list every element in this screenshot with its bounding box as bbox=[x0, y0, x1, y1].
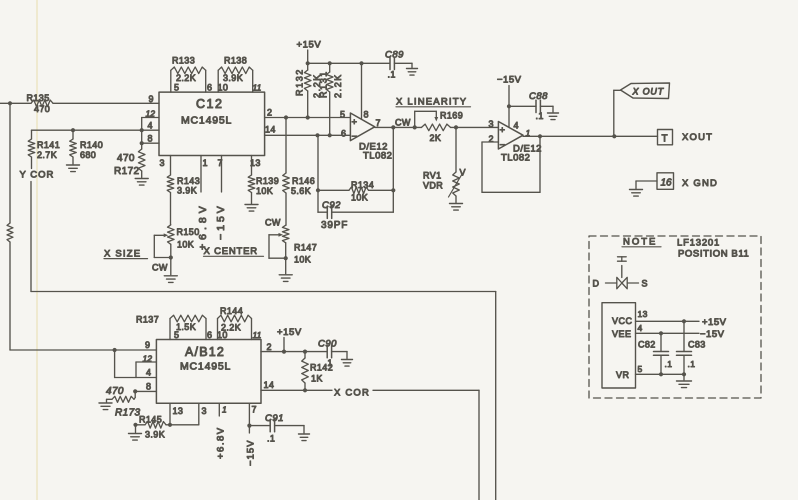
svg-text:2.2K: 2.2K bbox=[176, 73, 196, 83]
svg-text:R169: R169 bbox=[440, 111, 463, 121]
svg-text:X COR: X COR bbox=[334, 388, 370, 399]
svg-text:R173: R173 bbox=[115, 408, 141, 419]
svg-text:R140: R140 bbox=[80, 140, 103, 150]
svg-text:+15V: +15V bbox=[297, 40, 322, 51]
svg-text:5.6K: 5.6K bbox=[291, 186, 311, 196]
svg-text:1: 1 bbox=[203, 158, 208, 168]
svg-text:+: + bbox=[352, 117, 358, 128]
svg-text:+6.8V: +6.8V bbox=[216, 426, 227, 459]
svg-text:8: 8 bbox=[148, 134, 153, 144]
svg-text:Y COR: Y COR bbox=[20, 170, 55, 181]
svg-text:6: 6 bbox=[207, 83, 212, 93]
svg-text:−15V: −15V bbox=[215, 203, 227, 240]
svg-text:5: 5 bbox=[340, 109, 345, 119]
svg-text:5: 5 bbox=[638, 364, 643, 374]
svg-text:9: 9 bbox=[149, 94, 154, 104]
svg-text:X OUT: X OUT bbox=[632, 87, 665, 97]
svg-text:2.2K: 2.2K bbox=[333, 73, 343, 98]
svg-text:R134: R134 bbox=[351, 180, 374, 190]
svg-text:13: 13 bbox=[638, 309, 648, 319]
svg-text:13: 13 bbox=[173, 406, 184, 416]
svg-text:CW: CW bbox=[152, 263, 168, 273]
svg-text:14: 14 bbox=[265, 125, 276, 135]
svg-text:39PF: 39PF bbox=[321, 220, 348, 231]
svg-text:3.9K: 3.9K bbox=[223, 73, 243, 83]
svg-text:VDR: VDR bbox=[423, 181, 443, 191]
svg-text:X CENTER: X CENTER bbox=[204, 246, 258, 257]
svg-text:+6.8V: +6.8V bbox=[197, 202, 209, 250]
svg-text:3: 3 bbox=[489, 119, 494, 129]
svg-text:7: 7 bbox=[376, 118, 381, 128]
svg-text:470: 470 bbox=[34, 104, 50, 114]
svg-text:C92: C92 bbox=[322, 200, 341, 211]
svg-text:RV1: RV1 bbox=[423, 171, 442, 181]
svg-text:C12: C12 bbox=[196, 97, 223, 111]
svg-text:4: 4 bbox=[146, 368, 151, 378]
svg-text:+15V: +15V bbox=[702, 317, 727, 328]
svg-text:10K: 10K bbox=[177, 240, 194, 250]
svg-text:R172: R172 bbox=[114, 166, 140, 177]
svg-text:LF13201: LF13201 bbox=[677, 238, 720, 249]
svg-text:R147: R147 bbox=[294, 243, 317, 253]
svg-text:+15V: +15V bbox=[277, 327, 302, 338]
svg-text:−: − bbox=[500, 140, 506, 151]
svg-text:R141: R141 bbox=[37, 140, 60, 150]
svg-text:470: 470 bbox=[117, 153, 135, 164]
svg-text:6: 6 bbox=[341, 129, 346, 139]
svg-text:TL082: TL082 bbox=[363, 151, 392, 162]
svg-text:3.9K: 3.9K bbox=[145, 430, 165, 440]
svg-text:X GND: X GND bbox=[682, 178, 718, 189]
svg-text:3: 3 bbox=[202, 406, 207, 416]
svg-text:10K: 10K bbox=[351, 193, 368, 203]
svg-text:T: T bbox=[662, 134, 669, 145]
svg-text:C88: C88 bbox=[529, 91, 548, 102]
svg-text:.1: .1 bbox=[388, 70, 396, 80]
svg-text:VCC: VCC bbox=[612, 316, 633, 326]
svg-text:680: 680 bbox=[80, 150, 96, 160]
svg-text:R142: R142 bbox=[310, 363, 333, 373]
svg-text:16: 16 bbox=[661, 178, 673, 189]
svg-text:14: 14 bbox=[264, 380, 275, 390]
svg-text:470: 470 bbox=[106, 386, 124, 397]
svg-text:10K: 10K bbox=[294, 255, 311, 265]
svg-text:+: + bbox=[500, 125, 506, 136]
svg-text:R146: R146 bbox=[292, 176, 315, 186]
svg-text:R133: R133 bbox=[172, 56, 195, 66]
svg-text:MC1495L: MC1495L bbox=[180, 361, 231, 373]
svg-text:3: 3 bbox=[160, 158, 165, 168]
svg-text:MC1495L: MC1495L bbox=[181, 115, 232, 127]
svg-text:R144: R144 bbox=[220, 306, 243, 316]
svg-text:−15V: −15V bbox=[497, 75, 522, 86]
svg-text:R135: R135 bbox=[27, 93, 50, 103]
svg-text:11: 11 bbox=[253, 83, 262, 93]
svg-text:D: D bbox=[593, 279, 600, 289]
svg-text:6: 6 bbox=[207, 330, 212, 340]
svg-text:4: 4 bbox=[638, 323, 643, 333]
svg-text:10: 10 bbox=[218, 83, 229, 93]
svg-text:C82: C82 bbox=[638, 340, 656, 350]
svg-text:R143: R143 bbox=[177, 176, 200, 186]
svg-text:R138: R138 bbox=[224, 56, 247, 66]
svg-text:10: 10 bbox=[217, 330, 228, 340]
svg-text:R132: R132 bbox=[295, 68, 305, 96]
svg-text:4: 4 bbox=[148, 121, 153, 131]
svg-text:12: 12 bbox=[146, 109, 156, 119]
svg-text:A/B12: A/B12 bbox=[185, 345, 225, 359]
svg-text:3.9K: 3.9K bbox=[177, 186, 197, 196]
svg-text:R139: R139 bbox=[256, 176, 279, 186]
svg-text:X LINEARITY: X LINEARITY bbox=[396, 97, 467, 108]
svg-text:10K: 10K bbox=[256, 186, 273, 196]
svg-text:CW: CW bbox=[395, 118, 411, 128]
svg-text:S: S bbox=[642, 279, 648, 289]
svg-text:8: 8 bbox=[146, 382, 151, 392]
svg-text:8: 8 bbox=[364, 110, 369, 120]
svg-text:1K: 1K bbox=[311, 374, 323, 384]
svg-text:1: 1 bbox=[222, 405, 227, 415]
svg-text:2: 2 bbox=[267, 342, 272, 352]
svg-text:TL082: TL082 bbox=[501, 153, 530, 164]
svg-text:C83: C83 bbox=[688, 340, 706, 350]
svg-text:4: 4 bbox=[514, 121, 519, 131]
svg-text:2: 2 bbox=[267, 108, 272, 118]
svg-text:12: 12 bbox=[143, 354, 153, 364]
svg-text:2.7K: 2.7K bbox=[37, 150, 57, 160]
svg-text:VR: VR bbox=[616, 370, 630, 380]
svg-text:2K: 2K bbox=[430, 133, 442, 143]
svg-text:XOUT: XOUT bbox=[682, 132, 713, 143]
svg-text:R131: R131 bbox=[319, 70, 329, 98]
svg-text:R137: R137 bbox=[136, 315, 159, 325]
svg-text:.1: .1 bbox=[688, 359, 696, 369]
svg-text:C90: C90 bbox=[318, 339, 337, 350]
svg-text:−15V: −15V bbox=[700, 329, 725, 340]
svg-text:5: 5 bbox=[174, 83, 179, 93]
svg-text:.1: .1 bbox=[536, 111, 544, 121]
svg-text:.1: .1 bbox=[267, 434, 275, 444]
svg-text:C91: C91 bbox=[265, 413, 284, 424]
svg-text:R145: R145 bbox=[139, 415, 162, 425]
svg-text:5: 5 bbox=[174, 330, 179, 340]
svg-text:V: V bbox=[460, 168, 466, 178]
svg-text:.1: .1 bbox=[665, 359, 673, 369]
svg-text:−15V: −15V bbox=[246, 440, 257, 466]
svg-text:11: 11 bbox=[253, 330, 262, 340]
svg-text:NOTE: NOTE bbox=[623, 237, 657, 248]
svg-text:9: 9 bbox=[145, 340, 150, 350]
svg-text:POSITION B11: POSITION B11 bbox=[678, 249, 749, 260]
svg-text:CW: CW bbox=[265, 218, 281, 228]
svg-text:X SIZE: X SIZE bbox=[104, 249, 141, 260]
svg-text:−: − bbox=[352, 132, 358, 143]
svg-text:7: 7 bbox=[252, 405, 257, 415]
svg-text:VEE: VEE bbox=[612, 329, 632, 339]
